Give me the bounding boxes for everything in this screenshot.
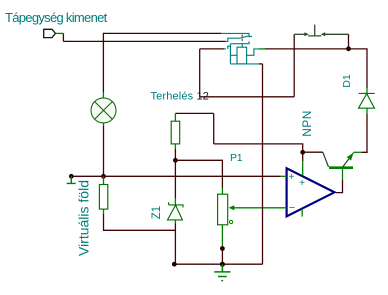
svg-text:−: −: [289, 202, 295, 214]
potentiometer P1 body: [218, 194, 228, 225]
transistor Q1 base bar: [329, 166, 353, 169]
op-amp U1 +input green stub: [281, 175, 287, 177]
wire x=213.7 vertical: [213, 113, 215, 143]
wire right rail x=262.5 from relay bottom to bottom rail: [262, 64, 264, 264]
wire coil left lead y=48.9: [200, 48, 224, 50]
resistor R2 bottom pin: [103, 209, 105, 214]
relay K1 left pin vertical and coil entry: [230, 46, 237, 64]
wire from connector down-step: [62, 33, 64, 41]
lamp L1 bottom pin: [103, 123, 105, 126]
wire V+ node down to op-amp: [302, 152, 304, 161]
op-amp U1 V+ pin: [302, 161, 304, 176]
emitter green stub: [354, 151, 363, 153]
diode D1 top pin: [366, 88, 368, 93]
junction dot above ground: [220, 246, 225, 251]
wire diode to emitter: [362, 114, 367, 152]
wire switch right down to junction: [348, 34, 350, 49]
op-amp U1 triangle: [287, 168, 335, 216]
pushbutton switch S1 right lead: [324, 33, 349, 35]
relay K1 bottom path to x=262: [230, 63, 259, 65]
relay K1 armature contact: [226, 36, 250, 42]
diode D1 bottom pin: [366, 108, 368, 114]
wire lamp to virtual-ground junction: [103, 126, 105, 176]
svg-text:Z1: Z1: [151, 206, 163, 219]
junction dot at (348.5,48.8): [346, 46, 351, 51]
potentiometer P1 open terminal circle: [230, 220, 233, 223]
pot P1 top pin: [221, 188, 223, 194]
lamp L1: [91, 98, 116, 123]
wire zener top from node: [174, 160, 176, 198]
svg-text:Terhelés 12: Terhelés 12: [151, 91, 210, 103]
resistor R2 (left small resistor): [99, 185, 107, 210]
wire zener bottom to bottom rail: [174, 224, 176, 265]
svg-text:D1: D1: [341, 74, 353, 88]
transistor Q1 emitter arrow: [347, 153, 354, 161]
terminal post virtual ground: [69, 174, 74, 179]
wire vertical link at x=103.4: [102, 33, 104, 42]
wire vertical x=199.7: [199, 49, 201, 97]
pushbutton switch S1 left arrowhead: [304, 32, 308, 36]
resistor R2 top pin from virtual ground node: [103, 176, 105, 184]
zener diode Z1: [168, 202, 184, 220]
ground symbol: [214, 264, 230, 276]
wire y=48.8 from coil right pin to diode branch: [265, 48, 349, 50]
svg-text:+: +: [289, 172, 295, 183]
svg-text:+: +: [299, 178, 305, 189]
wire y=113.4 from resistor top: [175, 112, 213, 114]
svg-text:Tápegység kimenet: Tápegység kimenet: [5, 10, 108, 25]
pushbutton switch S1 left lead: [294, 33, 305, 35]
wire R2 bottom down and right: [104, 214, 176, 230]
wire base lead to op-amp output: [336, 180, 343, 193]
svg-text:NPN: NPN: [300, 110, 314, 137]
junction dot virtual ground node: [101, 174, 106, 179]
wire resistor bottom to dot: [174, 149, 176, 160]
op-amp U1 V- pin: [301, 209, 303, 217]
wire y=143.9 resistor net: [214, 144, 303, 152]
diode D1: [359, 93, 375, 108]
junction dot resistor/zener/pot node: [173, 158, 178, 163]
relay K1 right pin step: [247, 49, 259, 55]
resistor R1 top stub: [174, 113, 176, 121]
connector J1 (power supply output tag): [44, 29, 56, 37]
relay K1 dashed actuation link: [241, 35, 243, 44]
zener Z1 bottom pin: [174, 220, 176, 224]
junction dot zener bottom: [172, 262, 177, 267]
junction dot ground node: [220, 262, 225, 267]
wire down to lamp: [102, 41, 104, 92]
wire horizontal y=40.5 from connector to relay armature: [63, 40, 225, 42]
relay K1 bar-to-coil stub: [241, 44, 243, 48]
potentiometer P1 wiper wire to op-amp minus input: [234, 207, 287, 209]
relay K1 right pin green stub: [259, 48, 265, 50]
transistor Q1 collector diagonal: [323, 152, 329, 167]
wire horizontal y=96.8: [200, 96, 295, 98]
wire pot bottom to bottom rail: [221, 249, 223, 265]
relay K1 top fixed contact (teal): [221, 33, 252, 36]
relay K1 coil: [237, 47, 247, 64]
svg-text:Virtuális föld: Virtuális föld: [76, 180, 92, 256]
pushbutton switch S1 crossbar and stem: [308, 25, 321, 36]
pot P1 bottom pin green: [221, 225, 223, 249]
lamp L1 top pin: [102, 92, 104, 98]
potentiometer P1 wiper arrow: [229, 205, 235, 210]
ground symbol lowest dot: [221, 280, 223, 282]
pushbutton switch S1 right arrowhead: [321, 32, 325, 36]
junction dot V+ node: [300, 150, 305, 155]
wire junction to top of diode column: [349, 49, 368, 88]
transistor Q1 emitter diagonal: [343, 153, 354, 167]
relay K1 left pin step: [228, 44, 231, 49]
wire horizontal y=33.4 to relay top contact: [103, 32, 221, 34]
wire y=176.3 op-amp plus input net: [71, 175, 280, 177]
wire teal end into armature (dark lead end): [223, 48, 226, 50]
wire collector lead: [303, 151, 323, 153]
zener Z1 top pin: [174, 198, 176, 205]
pin of connector J1 (green stub): [56, 32, 64, 34]
resistor R1 bottom pin: [174, 144, 176, 149]
relay K1 armature bar: [231, 41, 250, 43]
wire y=160.3 to pot top: [175, 160, 222, 188]
svg-text:P1: P1: [230, 152, 243, 164]
transistor Q1 base lead green: [342, 169, 344, 180]
bottom rail wire y=264.2: [174, 263, 262, 265]
wire vertical x=294.2 up to switch: [293, 34, 295, 97]
resistor R1: [171, 121, 180, 144]
